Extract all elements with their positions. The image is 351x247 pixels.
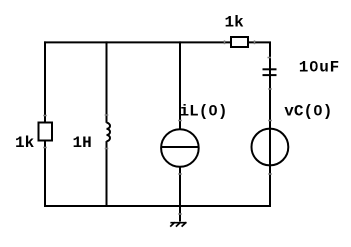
resistor R1 1k vertical box bbox=[39, 123, 53, 141]
ground hatch 1 bbox=[170, 222, 175, 226]
current source iL(0) circle bbox=[161, 129, 199, 167]
wire inductor branch upper bbox=[106, 41, 108, 122]
pin tick right of R2 bbox=[254, 40, 256, 44]
inductor L1 1H coil bbox=[107, 123, 111, 141]
wire current-source branch upper bbox=[179, 41, 181, 129]
ground hatch 3 bbox=[182, 222, 187, 226]
wire right vertical upper bbox=[269, 42, 271, 68]
pin tick below L1 bbox=[105, 148, 109, 150]
svg-text:1k: 1k bbox=[15, 134, 35, 152]
pin tick above iL source bbox=[178, 120, 182, 122]
wire bottom horizontal bbox=[44, 205, 271, 207]
ground bar bbox=[170, 222, 186, 224]
pin tick left of R2 bbox=[224, 40, 226, 44]
pin tick above L1 bbox=[105, 114, 109, 116]
wire capacitor to source bbox=[269, 68, 271, 130]
svg-text:iL(0): iL(0) bbox=[180, 102, 228, 120]
wire current-source branch lower bbox=[179, 166, 181, 221]
zero glyph counter cover iL(0) bbox=[212, 107, 215, 111]
current source iL(0) chord bbox=[162, 146, 199, 148]
wire left vertical lower bbox=[44, 141, 46, 206]
capacitor C1 top plate bbox=[263, 68, 277, 70]
pin tick below iL source bbox=[178, 173, 182, 175]
svg-text:vC(0): vC(0) bbox=[284, 102, 332, 120]
zero glyph counter cover vC(0) bbox=[317, 107, 320, 111]
pin tick ground stem bbox=[178, 213, 182, 215]
resistor R2 1k horizontal box bbox=[231, 37, 248, 47]
wire through source circle bbox=[269, 129, 271, 206]
pin tick above C1 bbox=[268, 57, 272, 59]
svg-text:1k: 1k bbox=[225, 14, 245, 32]
voltage source vC(0) circle bbox=[252, 129, 289, 166]
ground hatch 2 bbox=[176, 222, 181, 226]
wire top horizontal right segment bbox=[248, 41, 271, 43]
wire top horizontal left segment bbox=[44, 41, 230, 43]
pin tick below vC source bbox=[268, 173, 272, 175]
pin tick above R1 bbox=[43, 115, 47, 117]
svg-text:10uF: 10uF bbox=[299, 59, 340, 77]
svg-text:1H: 1H bbox=[73, 134, 92, 152]
capacitor C1 bottom plate bbox=[263, 74, 277, 76]
zero glyph counter cover 10uF bbox=[313, 64, 316, 68]
wire left vertical upper bbox=[44, 41, 46, 122]
wire inductor branch lower bbox=[106, 141, 108, 206]
pin tick below C1 bbox=[268, 88, 272, 90]
pin tick above vC source bbox=[268, 120, 272, 122]
pin tick below R1 bbox=[43, 147, 47, 149]
